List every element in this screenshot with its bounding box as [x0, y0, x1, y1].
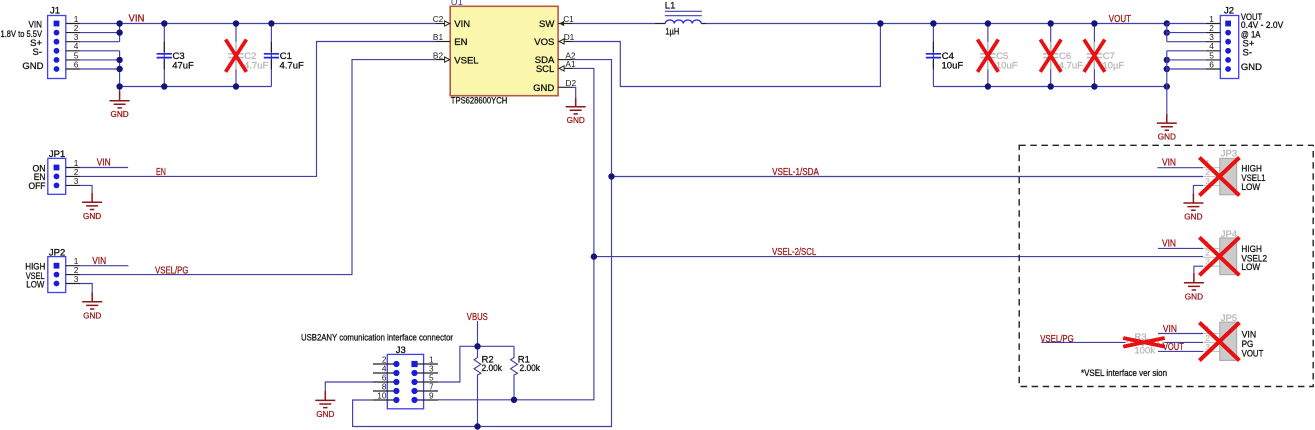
wire JP4 pin3 to ground: [1194, 266, 1203, 275]
wire J2 VOUT bus vertical: [1166, 24, 1168, 42]
svg-text:1µH: 1µH: [665, 27, 679, 38]
wire input ground rail: [120, 86, 272, 88]
junction SDA branch: [608, 173, 614, 179]
resistor R3 (DNP crossed): [1123, 332, 1165, 356]
connector J2: [1206, 6, 1284, 79]
pin A1 SCL: [558, 67, 572, 69]
capacitor C2 (DNP crossed): [226, 40, 269, 72]
svg-text:JP3: JP3: [1221, 148, 1237, 159]
svg-text:OFF: OFF: [29, 181, 46, 192]
svg-text:VOS: VOS: [534, 37, 554, 48]
connector JP4 (DNP crossed): [1199, 229, 1267, 275]
resistor R1: [511, 346, 541, 400]
wire J2 stub wires from output bus: [1167, 24, 1206, 70]
svg-text:10: 10: [377, 391, 387, 401]
svg-text:B2: B2: [433, 50, 444, 60]
pin D1 VOS: [558, 41, 572, 43]
wire R3 to JP5 pin2: [1165, 341, 1204, 343]
svg-text:VSEL-1/SDA: VSEL-1/SDA: [772, 167, 819, 178]
svg-text:S-: S-: [33, 47, 43, 58]
svg-text:10uF: 10uF: [996, 60, 1018, 71]
svg-text:VIN: VIN: [97, 158, 111, 169]
pin C2 VIN: [436, 23, 450, 25]
wire C2 vertical: [235, 24, 237, 87]
wire JP2 pin1 VIN stub: [80, 265, 128, 267]
wire GND bus vertical pins 4-6: [119, 51, 121, 87]
wire VIN rail from J1 to U1 VIN: [120, 23, 436, 25]
svg-text:100k: 100k: [1134, 345, 1155, 356]
wire C1 vertical: [270, 24, 272, 87]
wire J3 pin6 to ground: [325, 382, 373, 391]
wire JP1 pin1 VIN stub: [80, 167, 128, 169]
wire EN from JP1 to U1: [80, 42, 436, 177]
capacitor C4: [926, 42, 964, 72]
resistor R2: [474, 346, 502, 426]
svg-text:B1: B1: [433, 32, 444, 42]
svg-text:D2: D2: [565, 78, 576, 88]
svg-text:2.00k: 2.00k: [482, 363, 503, 374]
svg-text:VIN: VIN: [454, 19, 470, 30]
svg-text:LOW: LOW: [1241, 262, 1260, 273]
svg-text:VIN: VIN: [92, 256, 106, 267]
svg-text:VSEL: VSEL: [454, 55, 478, 66]
svg-text:GND: GND: [1241, 62, 1262, 73]
svg-text:4.7uF: 4.7uF: [1059, 60, 1083, 71]
wire C3 vertical: [163, 24, 165, 87]
svg-text:LOW: LOW: [1241, 182, 1260, 193]
wire J1 pin stub wires to input bus: [80, 24, 120, 70]
svg-text:A1: A1: [565, 59, 576, 69]
svg-text:6: 6: [74, 59, 79, 69]
wire C5 vertical: [987, 24, 989, 87]
pin D2 GND: [558, 86, 572, 88]
wire VOUT stub at JP5: [1158, 350, 1203, 352]
wire SDA from U1 down and around to J3 pin 10: [353, 60, 612, 427]
svg-text:VIN: VIN: [1163, 324, 1177, 335]
wire JP3 pin3 to ground: [1193, 185, 1203, 195]
svg-text:VOUT: VOUT: [1163, 342, 1184, 353]
svg-text:D1: D1: [564, 32, 575, 42]
wire input GND stub below rail: [119, 87, 121, 92]
pin B2 VSEL: [436, 59, 450, 61]
svg-text:GND: GND: [22, 61, 43, 72]
wire VSEL/PG from JP2 to U1: [80, 60, 436, 275]
ground JP4: [1184, 273, 1204, 301]
svg-text:VIN: VIN: [1162, 238, 1176, 249]
wire C7 vertical: [1093, 24, 1095, 87]
connector JP3 (DNP crossed): [1199, 148, 1265, 195]
connector JP1: [29, 149, 81, 194]
wire J2 GND bus vertical down to ground: [1166, 51, 1168, 114]
connector JP2: [25, 247, 80, 292]
svg-text:LOW: LOW: [26, 279, 44, 290]
svg-text:3: 3: [74, 176, 79, 186]
wire output ground rail: [933, 86, 1166, 88]
junction dots output section: [877, 20, 1170, 89]
wire VSEL-1/SDA branch to JP3: [612, 176, 1204, 178]
capacitor C5 (DNP crossed): [978, 40, 1018, 72]
pin B1 EN: [436, 41, 450, 43]
wire VIN bus vertical pins 1-3: [119, 24, 121, 42]
wire U1 GND to ground: [573, 87, 576, 97]
svg-text:9: 9: [429, 391, 434, 401]
ground JP2: [82, 292, 102, 320]
wire VSEL-2/SCL branch to JP4: [594, 256, 1203, 258]
wire SW to L1: [573, 23, 656, 25]
svg-text:4.7uF: 4.7uF: [280, 60, 304, 71]
wire VOS feedback: [573, 24, 881, 87]
ground JP1: [82, 193, 102, 221]
svg-text:SCL: SCL: [536, 64, 554, 75]
inductor L1: [655, 1, 706, 38]
ground input rail: [110, 91, 130, 119]
wire VIN stub at JP5: [1158, 333, 1203, 335]
junction dots input section: [116, 20, 274, 89]
wire SCL from U1 down and left to J3 pin 9: [438, 68, 594, 399]
capacitor C6 (DNP crossed): [1040, 40, 1083, 72]
svg-text:S-: S-: [1243, 48, 1253, 59]
svg-text:C2: C2: [433, 14, 444, 24]
connector JP5 (DNP crossed): [1199, 313, 1263, 360]
wire JP2 pin3 to ground: [80, 284, 92, 293]
pin A2 SDA: [558, 59, 572, 61]
ground U1 GND: [566, 97, 586, 125]
svg-text:VIN: VIN: [1162, 158, 1176, 169]
junction VBUS/R2 top: [474, 343, 480, 349]
connector J3: [301, 333, 453, 409]
svg-text:47uF: 47uF: [172, 60, 194, 71]
svg-text:4.7uF: 4.7uF: [244, 60, 268, 71]
svg-text:GND: GND: [533, 83, 554, 94]
svg-text:VSEL/PG: VSEL/PG: [155, 265, 189, 276]
pin C1 SW: [558, 23, 572, 25]
svg-text:EN: EN: [156, 167, 166, 178]
svg-text:2.00k: 2.00k: [520, 363, 541, 374]
svg-text:SW: SW: [539, 19, 554, 30]
wire C4 vertical: [932, 24, 934, 87]
capacitor C1: [264, 42, 304, 72]
svg-text:VSEL-2/SCL: VSEL-2/SCL: [772, 247, 817, 258]
ground J3: [315, 391, 335, 419]
junction R1 bottom on SCL line: [511, 397, 517, 403]
svg-text:L1: L1: [665, 1, 676, 12]
svg-text:VIN: VIN: [129, 13, 145, 24]
svg-text:USB2ANY comunication interface: USB2ANY comunication interface connector: [301, 333, 453, 344]
capacitor C3: [157, 42, 194, 72]
svg-text:*VSEL interface ver sion: *VSEL interface ver sion: [1081, 368, 1167, 379]
svg-text:VOUT: VOUT: [1109, 14, 1131, 25]
dashed VSEL interface box: [1019, 145, 1313, 386]
wire C6 vertical: [1050, 24, 1052, 87]
ground JP3: [1183, 194, 1203, 222]
svg-text:VSEL/PG: VSEL/PG: [1040, 334, 1074, 345]
svg-text:3: 3: [74, 274, 79, 284]
junction SCL branch: [591, 253, 597, 259]
wire JP1 pin3 to ground: [80, 185, 92, 192]
svg-text:VOUT: VOUT: [1242, 349, 1264, 360]
wire L1 to output rail / J2: [706, 23, 1167, 25]
svg-text:6: 6: [1209, 59, 1214, 69]
svg-text:10uF: 10uF: [942, 60, 964, 71]
connector J1: [1, 6, 81, 79]
svg-text:EN: EN: [454, 37, 467, 48]
svg-text:TPS628600YCH: TPS628600YCH: [451, 96, 508, 107]
junction R2 bottom on SDA line: [474, 423, 480, 429]
capacitor C7 (DNP crossed): [1084, 40, 1124, 72]
ground output: [1157, 114, 1177, 142]
wire VIN stub at JP4: [1158, 247, 1203, 249]
svg-text:C1: C1: [563, 14, 574, 24]
wire VSEL/PG to R3: [1041, 341, 1125, 343]
op-amp U1 TPS628600YCH: [433, 0, 577, 106]
wire VBUS horizontal to R1/R2 and J3 pin5: [438, 346, 514, 382]
wire VBUS vertical: [477, 321, 479, 346]
wire VIN stub at JP3: [1157, 167, 1203, 169]
svg-text:10µF: 10µF: [1102, 60, 1124, 71]
